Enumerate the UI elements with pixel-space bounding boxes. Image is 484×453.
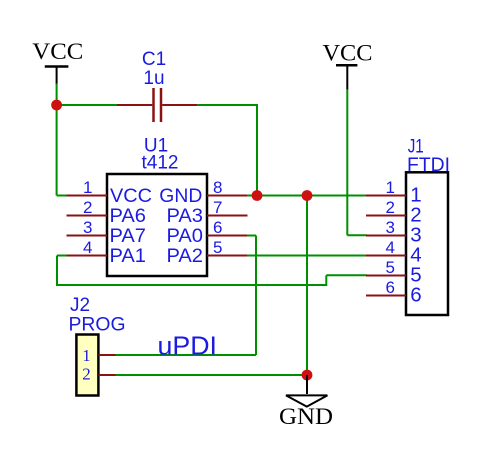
svg-text:6: 6 [410, 284, 421, 307]
junction dot at U1 pin8 [252, 190, 263, 201]
ground symbol GND [279, 375, 333, 429]
svg-text:4: 4 [83, 238, 92, 257]
svg-text:VCC: VCC [323, 41, 373, 66]
svg-text:PA1: PA1 [110, 246, 147, 267]
wire GND vertical [306, 196, 308, 376]
svg-text:J2: J2 [70, 295, 90, 316]
svg-text:1: 1 [83, 178, 92, 197]
wire U1 pin6 to J2 pin1 (uPDI net) [115, 236, 256, 356]
svg-text:5: 5 [386, 258, 395, 277]
wire C1 right lead to vertical drop [197, 104, 257, 196]
capacitor C1 [117, 88, 197, 122]
svg-text:2: 2 [386, 198, 395, 217]
svg-text:7: 7 [213, 198, 222, 217]
U1 pin 7 lead [207, 215, 248, 217]
svg-text:VCC: VCC [110, 186, 152, 207]
junction dot at GND [302, 370, 313, 381]
svg-text:C1: C1 [142, 49, 166, 70]
svg-text:t412: t412 [142, 153, 179, 174]
svg-text:3: 3 [83, 218, 92, 237]
J2 pin 1 lead [98, 354, 115, 356]
wire junction down to U1 pin1 [57, 104, 68, 196]
svg-text:PA7: PA7 [110, 226, 147, 247]
svg-text:GND: GND [159, 186, 202, 207]
power symbol VCC (right) [323, 41, 373, 91]
U1 pin 5 lead [207, 255, 247, 257]
J1 pin 2 lead [366, 215, 406, 217]
U1 pin 3 lead [67, 235, 108, 237]
U1 pin 6 lead [207, 235, 247, 237]
wire U1 pin5 to J1 pin4 [247, 255, 367, 257]
svg-text:2: 2 [83, 198, 92, 217]
svg-text:PA0: PA0 [167, 226, 204, 247]
svg-text:PA3: PA3 [167, 206, 204, 227]
svg-text:1: 1 [82, 346, 91, 365]
chip U1 body [107, 174, 207, 276]
svg-text:8: 8 [213, 178, 222, 197]
U1 pin 4 lead [67, 255, 108, 257]
junction dot above GND drop [302, 190, 313, 201]
svg-text:VCC: VCC [32, 39, 83, 64]
svg-text:6: 6 [386, 278, 395, 297]
svg-text:1u: 1u [143, 68, 164, 89]
connector J2 body [76, 335, 98, 396]
J1 pin 3 lead [366, 235, 406, 237]
svg-text:FTDI: FTDI [407, 155, 450, 176]
U1 pin 8 lead [207, 195, 247, 197]
J1 pin 5 lead [366, 275, 406, 277]
wire U1 pin4 down-around to J1 pin5 [56, 256, 367, 287]
wire VCC-left stub to junction [56, 84, 58, 106]
svg-text:PA6: PA6 [110, 206, 147, 227]
J2 pin 2 lead [98, 374, 115, 376]
J1 pin 4 lead [366, 255, 406, 257]
J1 pin 1 lead [366, 195, 406, 197]
U1 pin 2 lead [67, 215, 108, 217]
wire VCC-right to J1 pin3 [347, 89, 367, 235]
wire U1 pin8 row to J1 pin1 [247, 195, 367, 197]
svg-text:2: 2 [82, 365, 91, 384]
svg-text:1: 1 [386, 178, 395, 197]
svg-text:4: 4 [386, 238, 395, 257]
wire J2 pin2 to GND [115, 374, 307, 376]
svg-text:5: 5 [213, 238, 222, 257]
J1 pin 6 lead [366, 295, 406, 297]
power symbol VCC (left) [32, 39, 83, 85]
svg-text:uPDI: uPDI [158, 331, 218, 361]
U1 pin 1 lead [67, 195, 108, 197]
svg-text:6: 6 [213, 218, 222, 237]
svg-text:PA2: PA2 [167, 246, 204, 267]
svg-text:GND: GND [279, 404, 333, 429]
junction dot at VCC left [51, 100, 62, 111]
svg-text:3: 3 [386, 218, 395, 237]
connector J1 body [406, 172, 448, 315]
wire junction to C1 left lead [56, 104, 117, 106]
svg-text:PROG: PROG [69, 314, 126, 335]
